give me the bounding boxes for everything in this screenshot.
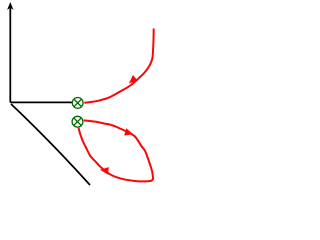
wire cross-section symbol 1 (current into page) (72, 98, 83, 109)
arrowhead on petal upper branch (124, 128, 133, 135)
horizontal line to wire (10, 101, 72, 103)
wire cross-section symbol 2 (current into page) (72, 116, 83, 127)
arrowhead on big red arc (129, 75, 138, 83)
field line (big red arc) (84, 29, 153, 103)
field line loop (red petal) (79, 120, 153, 181)
axis arrowhead (7, 2, 13, 10)
arrowhead on petal lower branch (100, 167, 109, 175)
black curve (11, 104, 90, 185)
vertical axis (9, 8, 11, 103)
